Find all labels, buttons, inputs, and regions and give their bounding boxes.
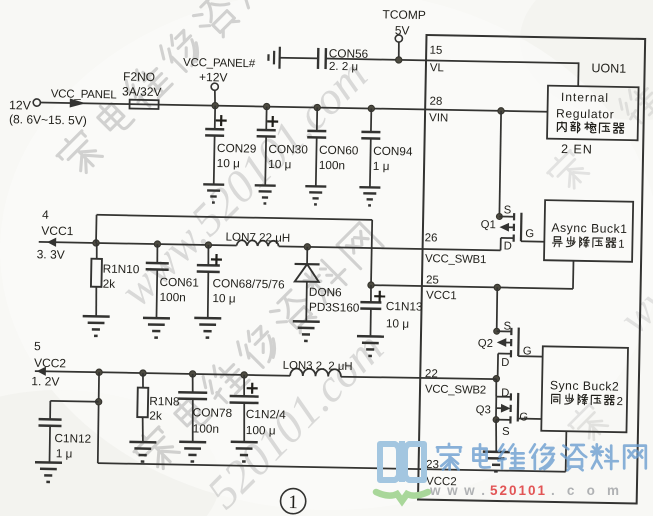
capacitor CON61 100n xyxy=(145,244,169,318)
capacitor CON68/75/76 10u xyxy=(196,245,222,319)
inductor LON7 22uH xyxy=(237,240,279,246)
svg-text:1: 1 xyxy=(288,492,298,513)
junction CON61 xyxy=(154,241,161,248)
junction CON78 xyxy=(189,371,196,378)
label voltage range xyxy=(9,112,87,127)
watermark gray diagonal row4 520101.com xyxy=(197,322,393,518)
svg-text:F2NO: F2NO xyxy=(123,69,155,84)
label Regulator xyxy=(556,106,615,121)
svg-text:3. 3V: 3. 3V xyxy=(37,247,65,262)
label value CON30 xyxy=(268,157,291,171)
svg-text:5V: 5V xyxy=(395,23,410,37)
svg-text:100 μ: 100 μ xyxy=(246,423,276,438)
svg-text:VL: VL xyxy=(430,62,445,74)
svg-text:D: D xyxy=(504,240,512,252)
svg-text:2k: 2k xyxy=(103,277,116,291)
block Internal Regulator xyxy=(547,86,639,141)
label 10u CON68 xyxy=(212,291,235,305)
pin VL label xyxy=(430,62,445,74)
junction node rail CON29 xyxy=(212,102,219,109)
pin 28 label xyxy=(429,96,442,108)
capacitor CON56 2.2u xyxy=(318,48,326,69)
label CON29 xyxy=(217,141,257,156)
label Async Buck1 xyxy=(551,221,627,236)
label CON61 xyxy=(159,275,199,290)
label CON56 xyxy=(329,46,369,61)
junction C1N2/4 xyxy=(241,372,248,379)
wire Async Buck1 down to pin25 line xyxy=(572,261,575,289)
ground DON6 xyxy=(292,321,319,341)
label D Q3 upper xyxy=(501,387,509,399)
label PD3S160 xyxy=(309,300,360,315)
svg-text:CON94: CON94 xyxy=(373,144,413,159)
svg-text:23: 23 xyxy=(426,459,439,471)
watermark gray diagonal row3 xyxy=(130,221,385,476)
label Q1 xyxy=(481,219,496,231)
junction node rail CON30 xyxy=(263,103,270,110)
svg-text:S: S xyxy=(504,204,512,216)
svg-text:2 EN: 2 EN xyxy=(561,142,593,157)
label +12V xyxy=(199,70,228,85)
label G Q1 xyxy=(525,228,534,240)
svg-text:CON78: CON78 xyxy=(193,405,233,420)
capacitor C1N12 1u xyxy=(38,419,62,463)
svg-text:C1N12: C1N12 xyxy=(54,431,91,446)
svg-text:100n: 100n xyxy=(193,421,220,435)
terminal VCC_PANEL# +12V xyxy=(211,83,219,106)
junction TCOMP xyxy=(395,57,402,64)
label 1.2V xyxy=(31,374,59,389)
svg-text:CON61: CON61 xyxy=(159,275,199,290)
terminal 12V input xyxy=(33,99,40,106)
wire VL into internal regulator xyxy=(577,62,579,86)
svg-text:Sync Buck2: Sync Buck2 xyxy=(550,378,620,393)
pin VIN label xyxy=(429,112,448,124)
wire Q3 gate to Sync Buck2 xyxy=(518,418,542,420)
pin 26 label xyxy=(425,232,438,244)
svg-text:VCC2: VCC2 xyxy=(34,356,67,371)
svg-text:5: 5 xyxy=(34,339,41,353)
label 10u C1N13 xyxy=(386,316,409,330)
junction node rail CON94 xyxy=(368,105,375,112)
ground C1N2/4 xyxy=(230,442,257,462)
transistor Q3 xyxy=(493,379,519,424)
pin 15 label xyxy=(429,45,442,57)
label CON60 xyxy=(319,143,359,158)
svg-text:VIN: VIN xyxy=(429,112,448,124)
label 5V xyxy=(395,23,410,37)
label 2k xyxy=(103,277,116,291)
diode DON6 PD3S160 xyxy=(294,247,320,322)
svg-text:3A/32V: 3A/32V xyxy=(122,84,162,99)
svg-text:Q1: Q1 xyxy=(481,219,496,231)
junction node rail CON60 xyxy=(314,104,321,111)
ground CON68 xyxy=(194,318,221,338)
label 100n CON61 xyxy=(159,290,186,304)
watermark gray fragment right edge xyxy=(615,80,653,126)
svg-text:VCC_SWB1: VCC_SWB1 xyxy=(425,253,486,266)
wire VCC1 top feedback line xyxy=(95,215,372,285)
ground CON61 xyxy=(143,318,170,338)
label Sync Buck2 xyxy=(550,378,620,393)
label yibu jiangyaqi 1 xyxy=(552,236,624,251)
label 100n CON78 xyxy=(193,421,220,435)
wire pin 25 VCC1 line xyxy=(371,285,573,289)
resistor R1N8 2k xyxy=(137,373,149,442)
label 2 EN xyxy=(561,142,593,157)
svg-text:Async Buck1: Async Buck1 xyxy=(551,221,627,236)
wire 12V rail to IC xyxy=(159,105,548,112)
label VCC1 xyxy=(41,224,74,239)
watermark gray diagonal row2 www.520101.com xyxy=(110,49,377,316)
capacitor C1N13 10u xyxy=(360,285,386,337)
ground for CON56 xyxy=(268,47,280,69)
label R1N10 xyxy=(103,262,140,277)
svg-text:VCC_PANEL#: VCC_PANEL# xyxy=(183,57,256,70)
watermark book icon xyxy=(380,441,424,482)
ground CON30 xyxy=(254,185,275,203)
label S Q2 xyxy=(503,321,511,333)
label C1N12 xyxy=(54,431,91,446)
label value 2.2u xyxy=(329,60,358,74)
svg-text:(8. 6V~15. 5V): (8. 6V~15. 5V) xyxy=(9,112,87,127)
label pin 4 xyxy=(42,208,49,222)
svg-text:VCC_PANEL: VCC_PANEL xyxy=(51,88,118,101)
label value CON29 xyxy=(217,156,240,170)
label DON6 xyxy=(309,285,342,300)
wire ground to CON56 xyxy=(280,57,318,60)
label TCOMP xyxy=(382,7,426,22)
svg-text:1 μ: 1 μ xyxy=(56,446,73,460)
label neibu wenyaqi xyxy=(557,121,624,133)
arrow VCC_PANEL direction xyxy=(70,98,86,107)
terminal TCOMP 5V xyxy=(395,35,403,60)
label CON30 xyxy=(268,142,308,157)
svg-text:Regulator: Regulator xyxy=(556,106,615,121)
svg-text:UON1: UON1 xyxy=(591,61,626,76)
svg-text:LON3 2. 2 μH: LON3 2. 2 μH xyxy=(283,360,353,373)
capacitor CON29 10 &#956; xyxy=(204,105,227,184)
capacitor CON94 1 &#956; xyxy=(360,108,380,187)
transistor Q2 xyxy=(493,327,519,379)
label F2NO xyxy=(123,69,155,84)
svg-text:1: 1 xyxy=(618,239,625,251)
capacitor CON60 100n xyxy=(306,107,326,186)
label 3A/32V xyxy=(122,84,162,99)
ground CON29 xyxy=(203,184,224,202)
svg-text:CON60: CON60 xyxy=(319,143,359,158)
svg-text:100n: 100n xyxy=(159,290,186,304)
label CON68/75/76 xyxy=(212,276,285,291)
label Q3 xyxy=(476,404,491,416)
wire VCC2 trunk down xyxy=(97,372,99,463)
ground CON78 xyxy=(179,442,206,462)
svg-text:R1N8: R1N8 xyxy=(149,394,180,409)
wire Sync Buck2 down to pin23 line xyxy=(565,431,568,471)
svg-text:Internal: Internal xyxy=(561,90,609,105)
wire CON56 to pin 15 VL xyxy=(326,59,579,64)
label value CON94 xyxy=(373,159,390,173)
label 100u C1N2/4 xyxy=(246,423,276,438)
ground CON60 xyxy=(305,186,326,204)
svg-text:D: D xyxy=(501,387,509,399)
svg-text:2: 2 xyxy=(616,396,623,408)
label CON78 xyxy=(193,405,233,420)
wire Q3 source to ground xyxy=(495,420,496,452)
label VCC2 xyxy=(34,356,67,371)
label 2k R1N8 xyxy=(149,408,162,422)
junction VIN xyxy=(498,108,505,115)
wire VIN down to Q1 source xyxy=(499,111,501,217)
arrow VCC1 output xyxy=(39,237,97,247)
label pin 5 xyxy=(34,339,41,353)
label 3.3V xyxy=(37,247,65,262)
svg-text:D: D xyxy=(501,357,509,369)
svg-text:S: S xyxy=(503,321,511,333)
pin 22 label xyxy=(425,368,438,380)
svg-text:4: 4 xyxy=(42,208,49,222)
svg-text:2k: 2k xyxy=(149,408,162,422)
svg-text:25: 25 xyxy=(426,274,439,286)
watermark gray fragment right bottom xyxy=(565,401,610,446)
watermark blue chinese text xyxy=(437,444,461,470)
pin VCC1 label xyxy=(426,290,457,303)
svg-text:DON6: DON6 xyxy=(309,285,342,300)
watermark gray fragment right mid xyxy=(609,225,653,343)
capacitor CON30 10 &#956; xyxy=(256,106,279,185)
wire 12V rail left xyxy=(40,102,129,104)
wire VCC1 rail / pin 26 line xyxy=(96,243,500,250)
junction Q2 source xyxy=(494,284,501,291)
label S Q3 xyxy=(502,426,510,438)
junction C1N12 tap xyxy=(95,398,102,405)
label Internal xyxy=(561,90,609,105)
capacitor CON78 100n xyxy=(177,374,207,443)
svg-text:R1N10: R1N10 xyxy=(103,262,140,277)
ground C1N12 xyxy=(35,462,62,482)
op-amp U1 : IC UON1 outline xyxy=(418,35,645,504)
svg-text:CON68/75/76: CON68/75/76 xyxy=(212,276,285,291)
block Async Buck1 xyxy=(544,200,633,262)
svg-text:26: 26 xyxy=(425,232,438,244)
label LON7 22uH xyxy=(225,231,290,245)
label VCC_PANEL# xyxy=(183,57,256,70)
pin 23 label xyxy=(426,459,439,471)
label 12V xyxy=(9,98,32,112)
label R1N8 xyxy=(149,394,180,409)
watermark gray diagonal row1 xyxy=(53,0,308,179)
figure number 1 circled xyxy=(280,488,306,514)
wire pin 23 VCC2 return line xyxy=(98,463,566,472)
junction C1N13 xyxy=(368,282,375,289)
label 1u C1N12 xyxy=(56,446,73,460)
svg-text:VCC1: VCC1 xyxy=(41,224,74,239)
label value CON60 xyxy=(319,158,346,172)
wire to C1N12 xyxy=(50,401,99,420)
junction R1N8 xyxy=(140,370,147,377)
svg-text:VCC1: VCC1 xyxy=(426,290,457,303)
label C1N13 xyxy=(386,299,423,314)
svg-text:2. 2 μ: 2. 2 μ xyxy=(329,60,358,74)
svg-text:+12V: +12V xyxy=(199,70,228,85)
arrow VCC2 output xyxy=(35,366,290,380)
svg-text:PD3S160: PD3S160 xyxy=(309,300,360,315)
svg-text:CON29: CON29 xyxy=(217,141,257,156)
svg-text:G: G xyxy=(519,411,528,423)
inductor LON3 2.2uH xyxy=(290,368,341,376)
junction pin22 node xyxy=(493,375,500,382)
block Sync Buck2 xyxy=(541,346,628,432)
svg-text:C1N13: C1N13 xyxy=(386,299,423,314)
label D Q1 xyxy=(504,240,512,252)
pin VCC2 label xyxy=(426,476,457,489)
wire Q2 gate to Sync Buck2 xyxy=(518,355,542,357)
wire down to Q2 xyxy=(496,287,497,331)
ground Q3 xyxy=(482,452,509,472)
svg-text:12V: 12V xyxy=(9,98,32,112)
svg-text:10 μ: 10 μ xyxy=(212,291,235,305)
junction DON6 xyxy=(304,244,311,251)
label UON1 xyxy=(591,61,626,76)
svg-text:G: G xyxy=(525,228,534,240)
wire pin 22 line xyxy=(341,376,496,379)
svg-text:LON7 22 μH: LON7 22 μH xyxy=(225,231,290,245)
label G Q2 xyxy=(523,345,532,357)
junction CON68 xyxy=(205,242,212,249)
svg-text:10 μ: 10 μ xyxy=(217,156,240,170)
ground R1N10 xyxy=(82,316,109,336)
label S Q1 xyxy=(504,204,512,216)
svg-text:Q3: Q3 xyxy=(476,404,491,416)
label G Q3 xyxy=(519,411,528,423)
svg-text:C1N2/4: C1N2/4 xyxy=(246,407,287,422)
resistor R1N10 2k xyxy=(90,243,102,317)
label tongbu jiangyaqi 2 xyxy=(551,394,623,409)
label C1N2/4 xyxy=(246,407,287,422)
label VCC_PANEL xyxy=(51,88,118,101)
ground R1N8 xyxy=(129,442,156,462)
wire Q1 gate to Async Buck1 xyxy=(521,240,544,242)
capacitor C1N2/4 100u xyxy=(229,375,259,443)
svg-text:10 μ: 10 μ xyxy=(268,157,291,171)
fuse F2N0 3A/32V xyxy=(130,100,159,109)
transistor Q1 xyxy=(496,212,522,250)
label LON3 2.2uH xyxy=(283,360,353,373)
svg-text:15: 15 xyxy=(429,45,442,57)
pin 25 label xyxy=(426,274,439,286)
svg-text:10 μ: 10 μ xyxy=(386,316,409,330)
label D Q2 xyxy=(501,357,509,369)
watermark gray fragment right top xyxy=(544,147,591,194)
svg-text:1 μ: 1 μ xyxy=(373,159,390,173)
ground C1N13 xyxy=(357,336,384,356)
pin VCC_SWB2 label xyxy=(425,384,486,397)
svg-text:TCOMP: TCOMP xyxy=(382,7,426,22)
label CON94 xyxy=(373,144,413,159)
svg-text:CON30: CON30 xyxy=(268,142,308,157)
svg-text:Q2: Q2 xyxy=(478,338,493,350)
junction VCC1 node xyxy=(93,240,100,247)
svg-text:28: 28 xyxy=(429,96,442,108)
label Q2 xyxy=(478,338,493,350)
svg-text:S: S xyxy=(502,426,510,438)
svg-text:VCC_SWB2: VCC_SWB2 xyxy=(425,384,486,397)
svg-text:1. 2V: 1. 2V xyxy=(31,374,59,389)
svg-text:100n: 100n xyxy=(319,158,346,172)
svg-text:w w w .: w w w . xyxy=(429,483,485,498)
ground CON94 xyxy=(359,187,380,205)
junction VCC2 node xyxy=(96,369,103,376)
pin VCC_SWB1 label xyxy=(425,253,486,266)
